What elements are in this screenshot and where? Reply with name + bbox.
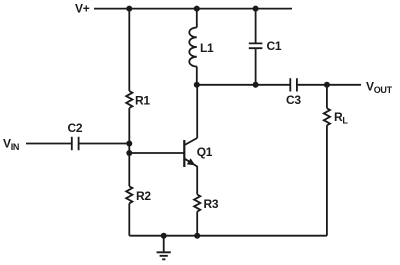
node dot ground xyxy=(161,233,167,239)
node dot C2 junction xyxy=(126,141,132,147)
svg-text:V+: V+ xyxy=(75,2,90,16)
wire output row from collector node to C3 xyxy=(197,84,290,86)
transistor Q1 emitter diagonal xyxy=(185,159,197,167)
wire L1 branch from V+ rail xyxy=(196,9,198,28)
wire C3 to VOUT xyxy=(297,84,361,86)
wire RL bottom to ground rail xyxy=(326,125,328,235)
node dot RL top xyxy=(324,82,330,88)
svg-text:RL: RL xyxy=(334,110,348,126)
wire C2 to base node xyxy=(79,143,130,145)
wire RL branch from output row xyxy=(326,85,328,109)
wire bottom ground rail xyxy=(129,235,327,237)
node dot base junction xyxy=(126,150,132,156)
wire top rail V+ xyxy=(94,8,292,10)
svg-text:Q1: Q1 xyxy=(197,145,213,159)
svg-text:C3: C3 xyxy=(286,93,301,107)
wire emitter vertical to R3 xyxy=(196,166,198,195)
node dot top rail L1 xyxy=(194,6,200,12)
capacitor C2 xyxy=(72,137,79,151)
capacitor C1 xyxy=(249,43,263,48)
node dot top rail C1 xyxy=(253,6,259,12)
ground stem xyxy=(163,236,165,252)
resistor R2 xyxy=(126,186,132,203)
wire collector vertical xyxy=(196,85,198,138)
wire C1 branch from V+ rail xyxy=(255,9,257,43)
wire R1 branch from V+ rail xyxy=(128,9,130,91)
resistor R1 xyxy=(126,91,132,108)
svg-text:C1: C1 xyxy=(267,39,282,53)
wire VIN lead xyxy=(26,143,72,145)
wire base from node to Q1 xyxy=(129,152,184,154)
resistor R3 xyxy=(194,195,200,212)
node dot R3 bottom xyxy=(194,233,200,239)
transistor Q1 emitter arrow xyxy=(187,158,195,165)
wire R3 bottom to ground rail xyxy=(196,212,198,236)
node dot collector/L1 xyxy=(194,82,200,88)
svg-text:R1: R1 xyxy=(135,94,150,108)
wire L1 bottom to collector node xyxy=(196,67,198,85)
transistor Q1 base bar xyxy=(183,140,185,167)
svg-text:L1: L1 xyxy=(200,41,214,55)
wire R1 bottom to base node xyxy=(128,108,130,186)
inductor L1 xyxy=(189,28,196,67)
svg-text:VIN: VIN xyxy=(3,137,19,153)
resistor RL xyxy=(324,108,330,125)
svg-text:R3: R3 xyxy=(204,197,219,211)
transistor Q1 collector diagonal xyxy=(185,138,197,145)
svg-text:VOUT: VOUT xyxy=(366,80,393,96)
wire R2 bottom to ground rail xyxy=(128,203,130,235)
wire C1 bottom to output row xyxy=(255,49,257,85)
capacitor C3 xyxy=(290,78,297,91)
ground bars xyxy=(157,252,171,259)
node dot top rail R1 xyxy=(126,6,132,12)
svg-text:C2: C2 xyxy=(68,121,83,135)
node dot C1 bottom xyxy=(253,82,259,88)
svg-text:R2: R2 xyxy=(136,189,151,203)
